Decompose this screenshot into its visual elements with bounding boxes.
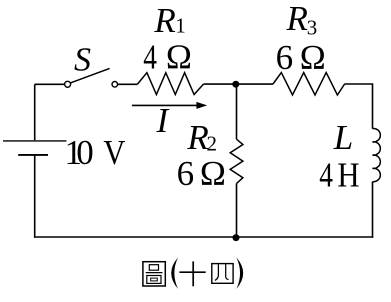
resistor R2 zigzag: [230, 139, 243, 183]
wire node A to R3: [237, 83, 274, 85]
svg-text:R: R: [153, 1, 175, 40]
switch S blade: [70, 68, 109, 83]
svg-text:6: 6: [177, 154, 195, 193]
svg-text:0: 0: [76, 133, 94, 172]
node B bottom junction dot: [233, 234, 240, 241]
caption open paren: [171, 258, 178, 289]
caption glyph TU (figure): [143, 262, 165, 286]
svg-text:3: 3: [307, 16, 318, 40]
wire R3 to top-right corner and down: [344, 84, 372, 129]
node A junction dot: [232, 81, 239, 88]
caption close paren: [236, 258, 243, 289]
current arrow I: [132, 102, 207, 109]
caption figure (14): [143, 258, 243, 289]
inductor L coil: [373, 129, 381, 182]
svg-text:L: L: [333, 118, 353, 157]
wire top-left horizontal: [35, 83, 65, 85]
wire R1 to node A: [204, 83, 237, 85]
wire switch to R1: [118, 83, 138, 85]
battery V1 long plate (+): [3, 140, 66, 142]
resistor R3 zigzag: [273, 73, 345, 95]
wire node A down to R2: [236, 84, 238, 139]
wire inductor to bottom-right corner: [372, 182, 374, 238]
svg-text:2: 2: [207, 132, 218, 156]
svg-text:6: 6: [276, 38, 294, 77]
svg-text:V: V: [103, 133, 125, 172]
battery V1 short plate (-): [18, 154, 48, 156]
svg-text:1: 1: [175, 14, 186, 38]
caption glyph ten: [179, 261, 205, 286]
caption glyph four: [212, 264, 233, 284]
svg-text:S: S: [74, 41, 91, 78]
svg-text:R: R: [286, 0, 308, 38]
switch S terminal circle left: [65, 81, 71, 87]
wire left vertical lower: [34, 156, 36, 238]
svg-text:Ω: Ω: [300, 38, 326, 77]
svg-text:H: H: [337, 156, 359, 195]
svg-text:Ω: Ω: [200, 154, 226, 193]
resistor R1 zigzag: [138, 73, 204, 95]
svg-text:Ω: Ω: [166, 38, 192, 77]
svg-text:4: 4: [319, 156, 333, 195]
svg-text:I: I: [156, 101, 171, 140]
svg-text:R: R: [186, 118, 208, 157]
switch S terminal circle right: [112, 82, 118, 88]
svg-text:4: 4: [143, 38, 157, 77]
wire R2 to bottom node: [236, 184, 238, 238]
wire bottom: [34, 236, 373, 238]
wire left vertical upper: [34, 84, 36, 140]
